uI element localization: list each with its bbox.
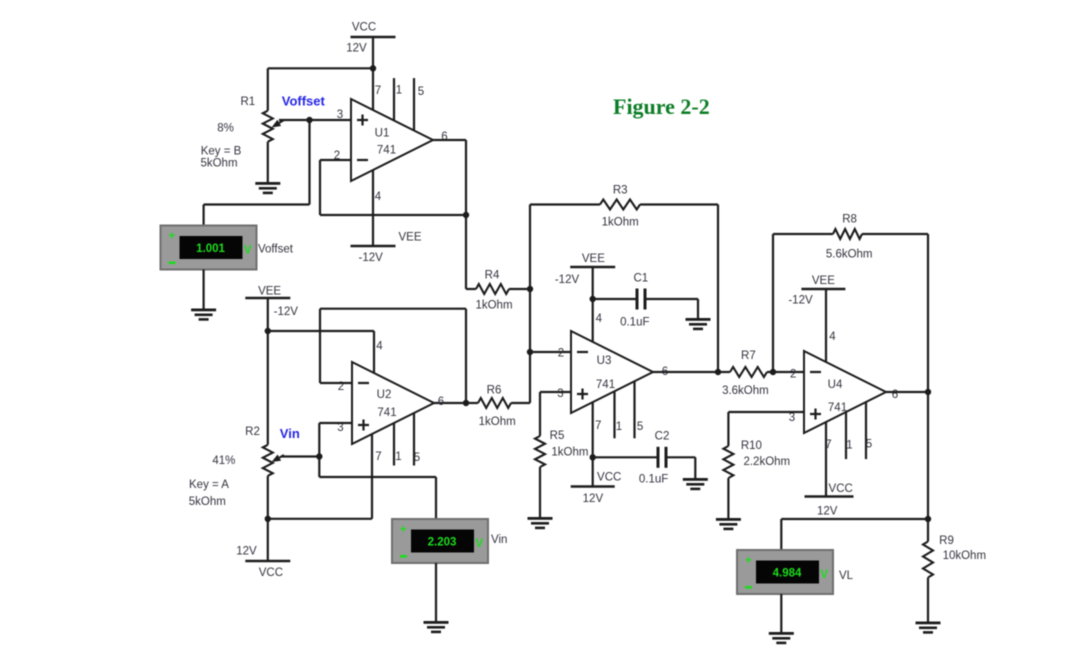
U4 pin 1 stub xyxy=(845,412,847,459)
U3 pin 7 stub to VCC xyxy=(592,402,594,486)
node R3/output junction xyxy=(715,369,721,375)
power VCC symbol (U1, 12V) xyxy=(351,36,396,39)
wire U1 output xyxy=(433,139,466,141)
svg-text:-12V: -12V xyxy=(274,306,299,318)
svg-text:VEE: VEE xyxy=(582,253,605,265)
wire R8 right to output xyxy=(862,233,928,235)
resistor R8 xyxy=(833,229,862,239)
svg-text:R6: R6 xyxy=(487,385,502,397)
wire VEE4 stub / U4 pin 4 xyxy=(825,289,827,362)
wire VEE3 stub xyxy=(592,267,594,342)
power VCC symbol (U4, 12V) xyxy=(805,495,854,498)
svg-text:Key = B: Key = B xyxy=(201,146,242,158)
svg-text:10kOhm: 10kOhm xyxy=(943,550,986,562)
wire U1 pin 2 feedback xyxy=(320,159,351,161)
wire R2 bottom to VCC xyxy=(267,476,269,561)
wire R1 wiper to U1 pin 3 xyxy=(279,119,351,121)
node C2 junction xyxy=(590,454,596,460)
svg-text:5: 5 xyxy=(637,421,643,433)
ground under R9 xyxy=(916,622,941,634)
ground for C2 xyxy=(683,478,708,490)
voltmeter Voffset (1.001 V) xyxy=(161,226,257,270)
wire U2 output xyxy=(434,402,466,404)
capacitor C1 xyxy=(636,289,639,310)
potentiometer R1 xyxy=(263,111,273,142)
svg-text:U3: U3 xyxy=(597,355,612,367)
svg-text:V: V xyxy=(244,245,252,257)
U1 pin 4 stub xyxy=(372,170,374,246)
ground under voltmeter VL xyxy=(769,632,794,644)
U1 pin 1 stub xyxy=(393,78,395,120)
svg-text:U2: U2 xyxy=(377,389,392,401)
wire VEE to R2 top xyxy=(267,298,269,445)
svg-text:12V: 12V xyxy=(346,43,367,55)
U2 pin 5 stub xyxy=(413,413,415,466)
svg-text:4: 4 xyxy=(375,191,382,203)
svg-text:8%: 8% xyxy=(217,123,234,135)
resistor R3 xyxy=(600,200,640,210)
svg-text:R3: R3 xyxy=(613,185,628,197)
svg-text:V: V xyxy=(820,569,828,581)
svg-text:12V: 12V xyxy=(817,506,838,518)
voltmeter Vin (2.203 V) xyxy=(392,519,488,563)
svg-text:VL: VL xyxy=(839,570,854,582)
svg-text:2: 2 xyxy=(790,369,796,381)
resistor R4 xyxy=(476,284,509,294)
svg-text:VCC: VCC xyxy=(829,483,853,495)
svg-text:U4: U4 xyxy=(828,379,843,391)
node R8 feedback junction xyxy=(770,369,776,375)
wire R4 input from U1 xyxy=(466,288,476,290)
node U1 feedback junction xyxy=(463,212,469,218)
svg-text:1.001: 1.001 xyxy=(196,243,225,255)
svg-text:R4: R4 xyxy=(485,270,500,282)
svg-text:C1: C1 xyxy=(633,273,648,285)
svg-text:Figure 2-2: Figure 2-2 xyxy=(613,94,710,119)
U1 pin 5 stub xyxy=(413,78,415,130)
wire to voltmeter VL xyxy=(781,518,928,520)
wire R10 to ground xyxy=(727,478,729,518)
svg-text:VEE: VEE xyxy=(812,275,835,287)
wire C2 left xyxy=(593,456,657,458)
node R4 junction xyxy=(527,286,533,292)
U3 pin 5 stub xyxy=(633,381,635,438)
svg-text:R8: R8 xyxy=(842,214,857,226)
R2 wiper arrow xyxy=(279,455,284,458)
svg-text:6: 6 xyxy=(438,396,444,408)
svg-text:R10: R10 xyxy=(741,440,762,452)
svg-text:741: 741 xyxy=(596,379,615,391)
svg-text:5: 5 xyxy=(414,452,420,464)
ground under R5 xyxy=(528,517,553,529)
svg-text:0.1uF: 0.1uF xyxy=(639,474,668,486)
ground under voltmeter Voffset xyxy=(191,309,216,321)
wire C2 right to ground xyxy=(668,456,696,458)
op-amp U3 (741) xyxy=(571,331,653,413)
wire U3 pin 3 to R5 xyxy=(540,391,571,393)
power VCC symbol (U3, 12V) xyxy=(571,485,615,488)
svg-text:Voffset: Voffset xyxy=(258,244,294,256)
svg-text:4: 4 xyxy=(829,331,836,343)
svg-text:VEE: VEE xyxy=(258,286,281,298)
wire R3 top left xyxy=(530,203,600,205)
R1 wiper arrow xyxy=(279,120,284,123)
svg-text:1kOhm: 1kOhm xyxy=(479,416,516,428)
svg-text:Vin: Vin xyxy=(491,534,507,546)
node R2/VCC junction xyxy=(265,516,271,522)
wire R4 to summing node xyxy=(509,288,530,290)
ground under voltmeter Vin xyxy=(424,621,449,633)
wire R8 top left xyxy=(773,233,833,235)
wire output down to load xyxy=(927,392,929,542)
svg-text:1: 1 xyxy=(846,440,852,452)
U4 pin 7 stub xyxy=(825,422,827,497)
svg-text:7: 7 xyxy=(595,420,601,432)
svg-text:3: 3 xyxy=(557,388,563,400)
svg-text:1: 1 xyxy=(616,421,622,433)
wire riser to U2 pin 3 xyxy=(318,423,320,457)
svg-text:4: 4 xyxy=(376,341,383,353)
svg-text:7: 7 xyxy=(825,439,831,451)
svg-text:U1: U1 xyxy=(375,128,390,140)
wire U3 output xyxy=(653,371,718,373)
wire riser down to voltmeter Vin xyxy=(318,457,320,478)
svg-text:R5: R5 xyxy=(550,430,565,442)
svg-text:-12V: -12V xyxy=(788,295,813,307)
svg-text:3: 3 xyxy=(789,412,795,424)
svg-text:5: 5 xyxy=(418,86,424,98)
wire summing node vertical xyxy=(529,205,531,404)
wire U4 output xyxy=(886,391,928,393)
svg-text:R9: R9 xyxy=(939,535,954,547)
U3 pin 1 stub xyxy=(613,391,615,438)
svg-text:4: 4 xyxy=(596,313,603,325)
wire U4 pin 3 to R10 xyxy=(728,411,804,413)
svg-text:-12V: -12V xyxy=(555,274,580,286)
svg-text:1: 1 xyxy=(395,451,401,463)
wire R9 to ground xyxy=(927,578,929,622)
svg-text:C2: C2 xyxy=(655,431,670,443)
power VEE symbol (U2, -12V) xyxy=(245,297,290,300)
U2 pin 1 stub xyxy=(393,423,395,466)
wire pin 7 drop into U1 xyxy=(372,68,374,110)
wire summing node to U3 pin 2 xyxy=(530,351,571,353)
svg-text:VCC: VCC xyxy=(597,472,621,484)
svg-text:Vin: Vin xyxy=(280,426,300,441)
svg-text:7: 7 xyxy=(375,451,381,463)
svg-text:741: 741 xyxy=(377,407,396,419)
svg-text:2.2kOhm: 2.2kOhm xyxy=(743,456,790,468)
svg-text:+: + xyxy=(400,524,407,536)
power VEE symbol (U3, -12V) xyxy=(570,266,615,269)
svg-text:3.6kOhm: 3.6kOhm xyxy=(722,385,769,397)
wire R6 to summing node xyxy=(511,402,530,404)
svg-text:1kOhm: 1kOhm xyxy=(475,300,512,312)
svg-text:7: 7 xyxy=(375,85,381,97)
wire junction down to voltmeter Voffset xyxy=(308,120,310,205)
node U4 output junction xyxy=(925,389,931,395)
resistor R7 xyxy=(730,367,767,377)
wire R5 to ground xyxy=(539,467,541,517)
svg-text:5kOhm: 5kOhm xyxy=(189,496,226,508)
wire R3 to U3 output xyxy=(640,203,718,205)
svg-text:12V: 12V xyxy=(236,546,257,558)
svg-text:4.984: 4.984 xyxy=(773,568,802,580)
svg-text:6: 6 xyxy=(441,131,447,143)
svg-text:6: 6 xyxy=(892,389,898,401)
svg-text:R2: R2 xyxy=(245,426,260,438)
svg-text:2.203: 2.203 xyxy=(428,537,457,549)
svg-text:0.1uF: 0.1uF xyxy=(620,317,649,329)
svg-text:VCC: VCC xyxy=(352,22,376,34)
svg-text:5kOhm: 5kOhm xyxy=(200,158,237,170)
svg-text:V: V xyxy=(475,538,483,550)
wire R2 wiper to U2 pin 3 riser xyxy=(281,455,319,457)
svg-text:VCC: VCC xyxy=(259,567,283,579)
wire C1 left xyxy=(593,298,636,300)
power VEE symbol (U1, -12V) xyxy=(351,245,396,248)
ground for C1 xyxy=(686,318,711,330)
node VL junction xyxy=(925,516,931,522)
wire R6 input from U2 xyxy=(466,402,478,404)
power VEE symbol (U4, -12V) xyxy=(801,288,845,291)
node VEE/pin4 junction xyxy=(265,328,271,334)
svg-text:Voffset: Voffset xyxy=(282,94,326,109)
U2 pin 7 stub to VCC rail xyxy=(371,434,373,519)
wire R7 to U4 pin 2 xyxy=(767,371,804,373)
node VCC/R1 junction xyxy=(370,65,376,71)
op-amp U4 (741) xyxy=(804,351,886,433)
wire voltmeter VL to ground xyxy=(780,594,782,632)
resistor R9 xyxy=(923,542,933,578)
wire voltmeter Vin to ground xyxy=(435,563,437,621)
wire R1 bottom to ground xyxy=(267,142,269,182)
svg-text:41%: 41% xyxy=(212,455,235,467)
resistor R5 xyxy=(535,436,545,467)
svg-text:+: + xyxy=(169,231,176,243)
svg-text:1kOhm: 1kOhm xyxy=(602,217,639,229)
svg-text:741: 741 xyxy=(377,145,396,157)
node R2 wiper junction xyxy=(316,453,322,459)
wire output to R7 xyxy=(718,371,730,373)
potentiometer R2 xyxy=(263,445,273,476)
ground under R10 xyxy=(716,518,741,530)
wire VCC stub to pin7 junction xyxy=(372,37,374,68)
svg-text:741: 741 xyxy=(828,402,847,414)
svg-text:R1: R1 xyxy=(240,96,255,108)
wire U2 pin 2 feedback xyxy=(320,382,352,384)
node VEE3/C1 junction xyxy=(590,296,596,302)
wire R8 feedback left riser xyxy=(772,234,774,372)
power VCC symbol (U2, 12V) xyxy=(245,560,290,563)
voltmeter VL (4.984 V) xyxy=(737,550,833,594)
U4 pin 5 stub xyxy=(865,402,867,459)
node U3 pin2 junction xyxy=(527,349,533,355)
svg-text:VEE: VEE xyxy=(398,232,421,244)
wire C1 right to ground xyxy=(647,298,699,300)
op-amp U1 (741) xyxy=(351,99,433,181)
svg-text:1kOhm: 1kOhm xyxy=(551,447,588,459)
svg-text:R7: R7 xyxy=(741,350,756,362)
resistor R10 xyxy=(723,446,733,478)
svg-text:3: 3 xyxy=(337,109,343,121)
wire voltmeter Voffset to ground xyxy=(203,270,205,309)
svg-text:+: + xyxy=(745,555,752,567)
wire junction to U2 pin 4 xyxy=(268,330,374,332)
node wiper/voltmeter junction xyxy=(306,117,312,123)
U2 pin 4 stub xyxy=(373,331,375,373)
svg-text:5.6kOhm: 5.6kOhm xyxy=(826,249,873,261)
svg-text:-12V: -12V xyxy=(359,252,384,264)
node U2 feedback junction xyxy=(463,400,469,406)
svg-text:12V: 12V xyxy=(583,493,604,505)
svg-text:5: 5 xyxy=(866,439,872,451)
capacitor C2 xyxy=(657,447,660,468)
ground under R1 xyxy=(255,182,280,194)
svg-text:2: 2 xyxy=(558,348,564,360)
resistor R6 xyxy=(478,398,511,408)
svg-text:1: 1 xyxy=(396,85,402,97)
svg-text:Key = A: Key = A xyxy=(189,479,229,491)
op-amp U2 (741, flipped) xyxy=(352,362,434,444)
wire junction to R1 top xyxy=(268,67,373,69)
